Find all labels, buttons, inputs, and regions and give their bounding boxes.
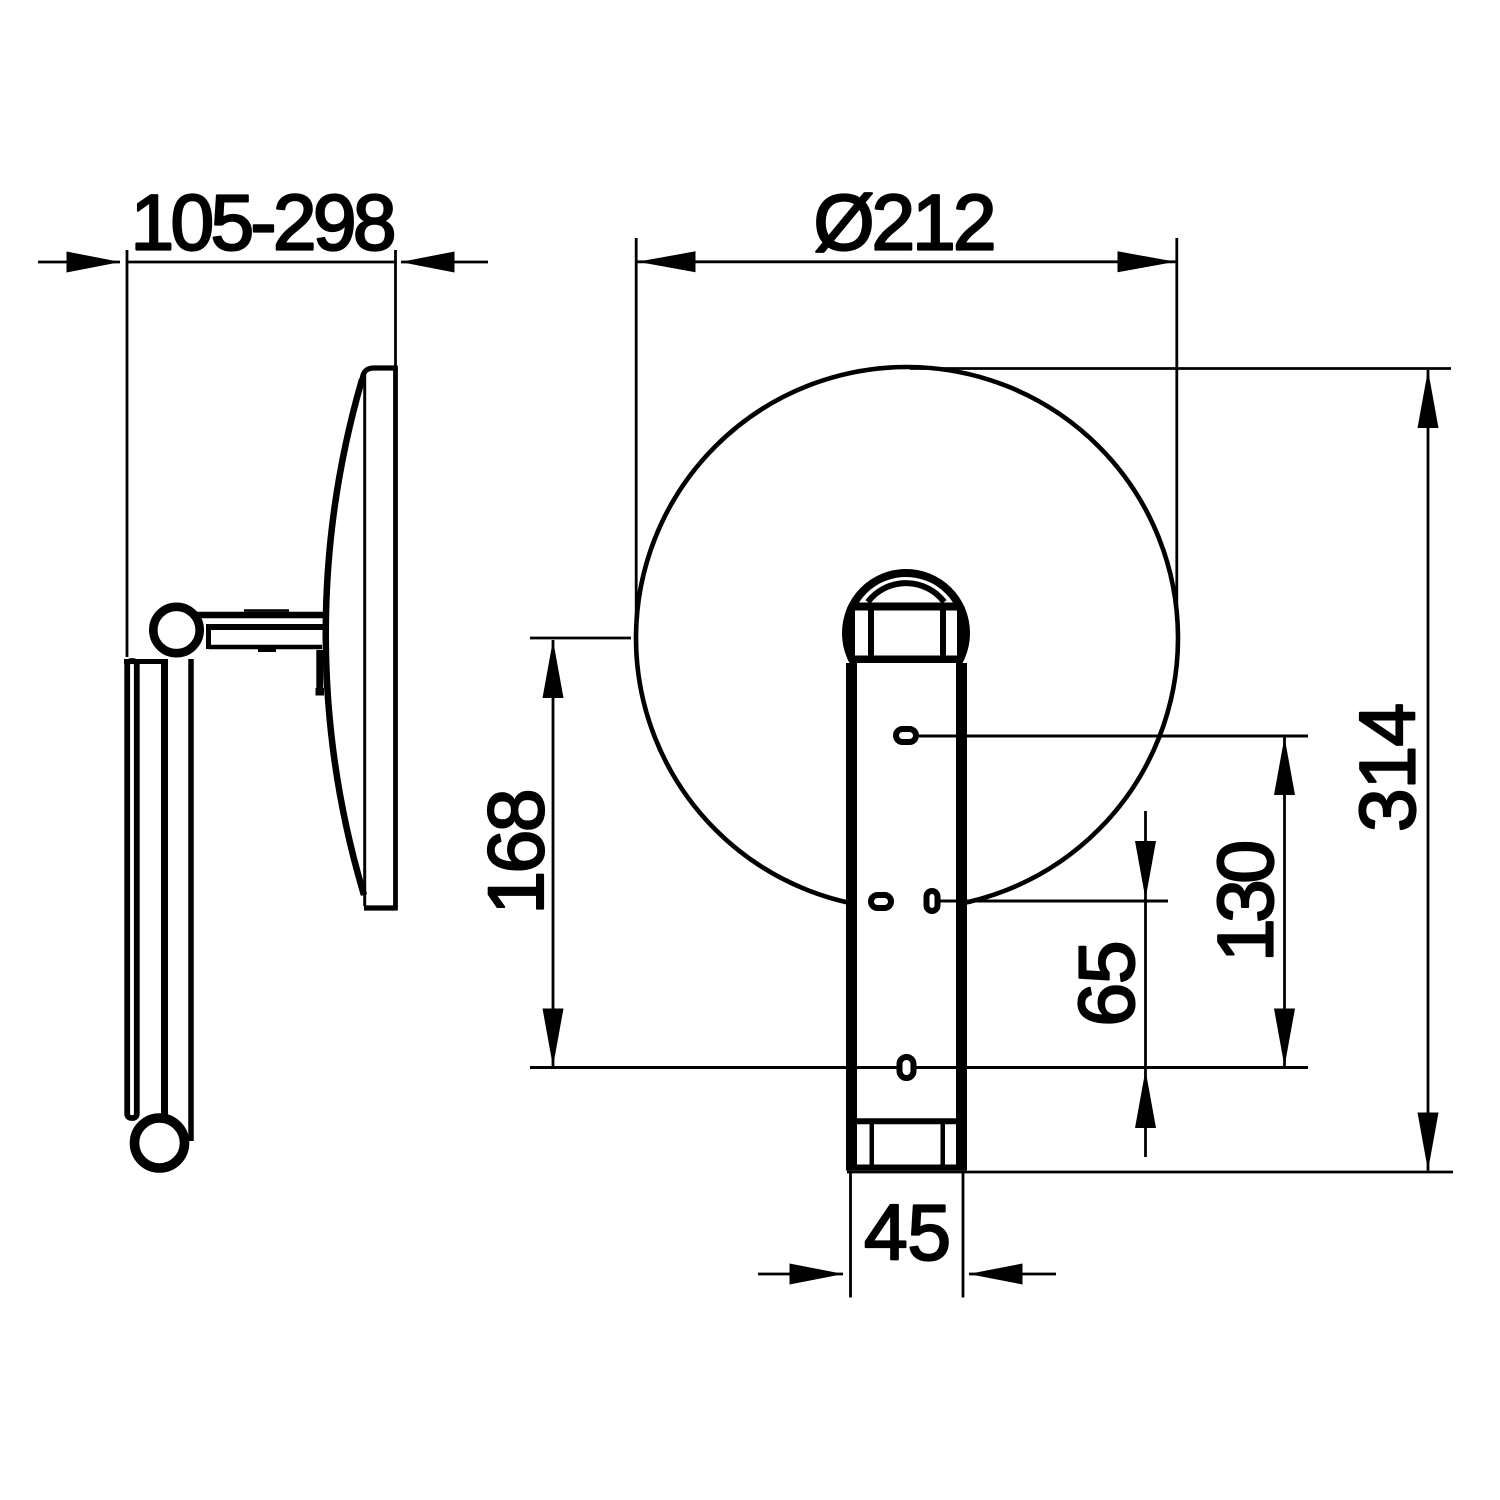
arrow down inside bbox=[1274, 1009, 1295, 1067]
extension line right (mirror front) bbox=[394, 250, 397, 366]
bar lower shoulder line bbox=[857, 1118, 956, 1124]
clamp inner line right bbox=[940, 603, 946, 661]
extension line left tangent bbox=[635, 238, 638, 640]
mounting bar left edge bbox=[846, 663, 857, 1168]
arrow up outside (to 1068) bbox=[1135, 1070, 1156, 1128]
arm left cap bbox=[206, 624, 211, 649]
arrow right outside bbox=[969, 1264, 1023, 1285]
svg-text:Ø212: Ø212 bbox=[814, 179, 997, 267]
extension line right tangent bbox=[1175, 238, 1178, 622]
arm middle line bbox=[206, 624, 323, 630]
extension line left bbox=[849, 1171, 852, 1298]
dome cap arc bbox=[868, 583, 944, 602]
svg-text:45: 45 bbox=[864, 1189, 951, 1277]
wall plate bbox=[127, 661, 137, 1118]
arrow up inside bbox=[543, 640, 564, 698]
dimension line 168 bbox=[552, 640, 555, 1066]
arrow down outside (to 901) bbox=[1135, 841, 1156, 899]
svg-text:314: 314 bbox=[1344, 703, 1432, 832]
mirror glass line (side view) bbox=[363, 370, 366, 906]
bottom cap right edge bbox=[941, 1124, 946, 1166]
arm screw bump top bbox=[244, 609, 289, 612]
mounting bar right edge bbox=[956, 663, 967, 1168]
top slot bbox=[896, 729, 916, 742]
dimension line 314 bbox=[1427, 370, 1430, 1171]
svg-text:168: 168 bbox=[472, 789, 560, 915]
arrow up inside bbox=[1418, 370, 1439, 428]
arm screw bump bottom bbox=[258, 649, 276, 652]
ball joint behind bar (front view) bbox=[846, 573, 966, 693]
swivel arm rail front line bbox=[161, 664, 168, 1116]
arrow right inside bbox=[1118, 251, 1176, 272]
mirror top edge (side view) bbox=[362, 368, 397, 381]
svg-text:105-298: 105-298 bbox=[131, 179, 397, 267]
arrow left inside bbox=[638, 251, 696, 272]
arrow down inside bbox=[543, 1009, 564, 1067]
middle slot right bbox=[927, 891, 938, 911]
extension line top (disc top) bbox=[910, 367, 1451, 370]
clamp nut on ball (front view) bbox=[851, 607, 961, 660]
svg-text:65: 65 bbox=[1063, 941, 1151, 1027]
dimension line 45 right bbox=[969, 1273, 1056, 1276]
leader line top slot bbox=[919, 735, 1308, 738]
leader line middle slot bbox=[940, 900, 1168, 903]
arrow down inside bbox=[1418, 1113, 1439, 1171]
arrow right outside bbox=[401, 252, 455, 273]
dimension line 130 bbox=[1283, 737, 1286, 1067]
dimension line Ø212 bbox=[637, 260, 1176, 263]
arrow left outside bbox=[790, 1264, 844, 1285]
mirror back line (side view) bbox=[393, 366, 398, 910]
arm upper line bbox=[196, 612, 323, 619]
arrow left outside bbox=[67, 252, 121, 273]
bottom slot bbox=[900, 1057, 914, 1078]
arrow up inside bbox=[1274, 737, 1295, 795]
middle slot left bbox=[871, 895, 891, 908]
mirror housing front curve (side view) bbox=[326, 379, 364, 895]
dimension line 45 left bbox=[758, 1273, 843, 1276]
svg-text:130: 130 bbox=[1202, 840, 1290, 962]
wall plate top edge bbox=[124, 659, 168, 664]
swivel arm rail back line bbox=[188, 659, 194, 1141]
extension line right bbox=[962, 1171, 965, 1298]
dimension line 105-298 bbox=[38, 261, 120, 264]
bottom cap left edge bbox=[870, 1124, 875, 1166]
dimension line 65 bbox=[1144, 811, 1147, 1157]
mirror bottom edge (side view) bbox=[364, 905, 398, 910]
extension line bottom (bar bottom) bbox=[847, 1171, 1453, 1174]
reference line at disc centre bbox=[530, 637, 631, 640]
mirror disc circle Ø212 bbox=[636, 367, 1178, 909]
mirror holder clamp (side view) bbox=[316, 650, 323, 691]
top ball joint ring bbox=[153, 607, 199, 653]
clamp inner line left bbox=[868, 603, 874, 661]
extension line left (wall) bbox=[126, 250, 129, 657]
bottom ball joint ring bbox=[135, 1118, 185, 1168]
mounting bar fill (front view) bbox=[846, 663, 967, 1164]
bar bottom edge bbox=[846, 1165, 967, 1171]
arm lower line bbox=[209, 645, 322, 650]
reference line bottom slot level bbox=[530, 1066, 1308, 1069]
